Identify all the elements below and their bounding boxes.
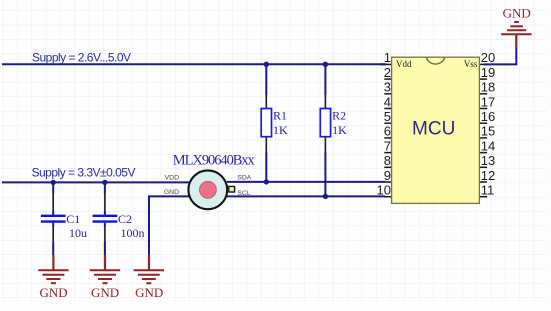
wire sensor GND pin to ground — [149, 196, 190, 255]
node junction C1/3.3V rail — [51, 180, 56, 185]
resistor R2 pin 2 — [324, 137, 326, 152]
wire C1 to ground — [52, 242, 54, 255]
svg-text:GND: GND — [503, 5, 531, 20]
svg-text:2: 2 — [384, 65, 391, 80]
resistor R1 body — [261, 109, 271, 137]
svg-text:1K: 1K — [332, 123, 347, 137]
ground GND1 power port — [38, 255, 68, 300]
node junction R2/SCL — [323, 194, 328, 199]
node junction R2/top rail — [323, 62, 328, 67]
wire rail to C1 — [52, 182, 54, 193]
wire net SDA sensor to MCU pin 9 — [227, 181, 385, 183]
svg-text:Vss: Vss — [464, 59, 478, 69]
resistor R1 pin 1 — [265, 95, 267, 109]
capacitor C2 plates — [93, 211, 118, 227]
sensor U1 pin1 marker square — [229, 186, 235, 192]
capacitor C1 pin 2 — [52, 227, 54, 243]
svg-text:1: 1 — [384, 50, 391, 65]
svg-text:GND: GND — [40, 285, 68, 300]
svg-text:100n: 100n — [121, 226, 145, 240]
svg-text:4: 4 — [384, 94, 391, 109]
svg-text:MCU: MCU — [412, 119, 455, 140]
svg-text:VDD: VDD — [165, 174, 179, 181]
svg-text:SCL: SCL — [237, 190, 250, 197]
MCU pin numbers 20-11 — [481, 50, 495, 197]
svg-text:9: 9 — [384, 168, 391, 183]
svg-text:MLX90640Bxx: MLX90640Bxx — [173, 153, 256, 169]
ground GND2 power port — [90, 255, 120, 300]
resistor R1 pin 2 — [265, 137, 267, 152]
wire rail to C2 — [104, 182, 106, 193]
svg-text:C2: C2 — [118, 212, 132, 226]
svg-text:R2: R2 — [332, 109, 346, 123]
svg-text:GND: GND — [91, 285, 119, 300]
svg-text:GND: GND — [135, 285, 163, 300]
MCU U2 pin stubs left side pins 1-10 — [384, 64, 392, 196]
svg-text:11: 11 — [481, 183, 495, 198]
svg-text:13: 13 — [481, 153, 495, 168]
svg-text:GND: GND — [164, 189, 179, 196]
svg-text:SDA: SDA — [237, 174, 251, 181]
sensor U1 die circle — [200, 181, 217, 198]
svg-text:7: 7 — [384, 138, 391, 153]
capacitor C1 plates — [41, 211, 66, 227]
svg-text:10u: 10u — [69, 226, 87, 240]
svg-text:5: 5 — [384, 109, 391, 124]
wire top rail to MCU pin 1 — [380, 63, 386, 65]
svg-text:Vdd: Vdd — [396, 59, 412, 69]
wire C2 to ground — [104, 242, 106, 255]
ground GND4 power port top — [501, 5, 531, 34]
svg-text:R1: R1 — [273, 109, 287, 123]
svg-text:Supply = 2.6V...5.0V: Supply = 2.6V...5.0V — [32, 50, 131, 64]
resistor R2 pin 1 — [324, 95, 326, 109]
wire net VDD2 3.3V rail — [2, 181, 190, 183]
svg-text:14: 14 — [481, 138, 495, 153]
wire top rail to R2 — [324, 64, 326, 95]
svg-text:17: 17 — [481, 94, 495, 109]
svg-text:6: 6 — [384, 124, 391, 139]
node junction C2/3.3V rail — [102, 180, 107, 185]
svg-text:20: 20 — [481, 50, 495, 65]
node junction R1/top rail — [264, 62, 269, 67]
svg-text:1K: 1K — [273, 123, 288, 137]
wire net SCL sensor to MCU pin 10 — [227, 195, 385, 197]
capacitor C2 pin 1 — [104, 194, 106, 212]
svg-text:3: 3 — [384, 80, 391, 95]
capacitor C2 pin 2 — [104, 227, 106, 243]
svg-text:16: 16 — [481, 109, 495, 124]
wire MCU pin 20 to ground — [484, 48, 516, 64]
wire R2 to SCL — [324, 152, 326, 197]
resistor R2 body — [320, 109, 330, 137]
svg-text:18: 18 — [481, 80, 495, 95]
capacitor C1 pin 1 — [52, 194, 54, 212]
node junction R1/SDA — [264, 179, 269, 184]
svg-text:C1: C1 — [66, 212, 80, 226]
svg-text:Supply = 3.3V±0.05V: Supply = 3.3V±0.05V — [32, 165, 136, 179]
wire R1 to SDA — [265, 152, 267, 182]
sensor U1 body circle — [188, 170, 227, 209]
wire net VDD1 top supply rail — [2, 63, 386, 65]
svg-text:15: 15 — [481, 124, 495, 139]
wire top rail to R1 — [265, 64, 267, 95]
MCU U2 notch — [426, 57, 444, 64]
MCU U2 body — [392, 57, 480, 203]
svg-text:19: 19 — [481, 65, 495, 80]
svg-text:10: 10 — [377, 183, 391, 198]
svg-text:8: 8 — [384, 153, 391, 168]
MCU pin numbers 1-10 — [377, 50, 391, 197]
wire ground stem red upper — [515, 34, 517, 48]
ground GND3 power port — [134, 255, 164, 300]
MCU U2 pin stubs right side pins 20-11 — [479, 64, 487, 196]
svg-text:12: 12 — [481, 168, 495, 183]
